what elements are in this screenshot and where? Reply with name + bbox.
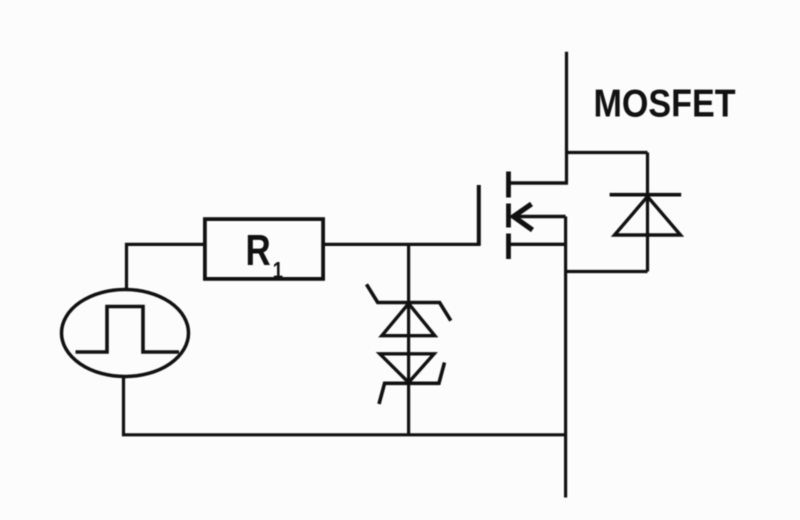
- MOSFET Q1 source connection: [509, 243, 566, 246]
- wire body diode branch: [566, 153, 648, 272]
- svg-text:MOSFET: MOSFET: [594, 81, 737, 125]
- body diode D cathode bar: [610, 193, 682, 197]
- zener diode lower (TVS) triangle: [380, 354, 434, 383]
- svg-text:R: R: [246, 226, 271, 275]
- MOSFET Q1 drain connection: [509, 181, 569, 184]
- MOSFET Q1 gate plate: [477, 185, 481, 246]
- MOSFET Q1 body arrowhead: [514, 204, 533, 230]
- pulse waveform symbol inside source: [76, 307, 180, 353]
- zener diode upper (TVS) cathode bar with bent ends: [367, 284, 451, 320]
- zener diode lower (TVS) cathode bar with bent ends: [379, 363, 445, 405]
- MOSFET Q1 channel segment bottom: [506, 234, 511, 260]
- wire TVS vertical branch: [407, 244, 410, 434]
- resistor R1 box: [205, 219, 323, 279]
- pulse source V1 ellipse: [62, 290, 189, 377]
- wire MOSFET drain lead up: [565, 52, 568, 183]
- svg-text:1: 1: [273, 258, 283, 283]
- zener diode upper (TVS) triangle: [382, 304, 435, 336]
- label R1: [246, 226, 283, 283]
- wire from resistor to MOSFET gate (node G): [325, 243, 480, 246]
- label MOSFET: [594, 81, 737, 125]
- wire bottom ground return: [124, 377, 566, 435]
- MOSFET Q1 channel segment top: [506, 172, 511, 198]
- MOSFET Q1 body arrow shaft: [514, 215, 566, 218]
- body diode D triangle: [615, 197, 681, 236]
- wire from pulse source top to resistor: [127, 244, 204, 289]
- wire MOSFET source lead down: [564, 217, 567, 498]
- MOSFET Q1 channel segment middle: [506, 204, 511, 228]
